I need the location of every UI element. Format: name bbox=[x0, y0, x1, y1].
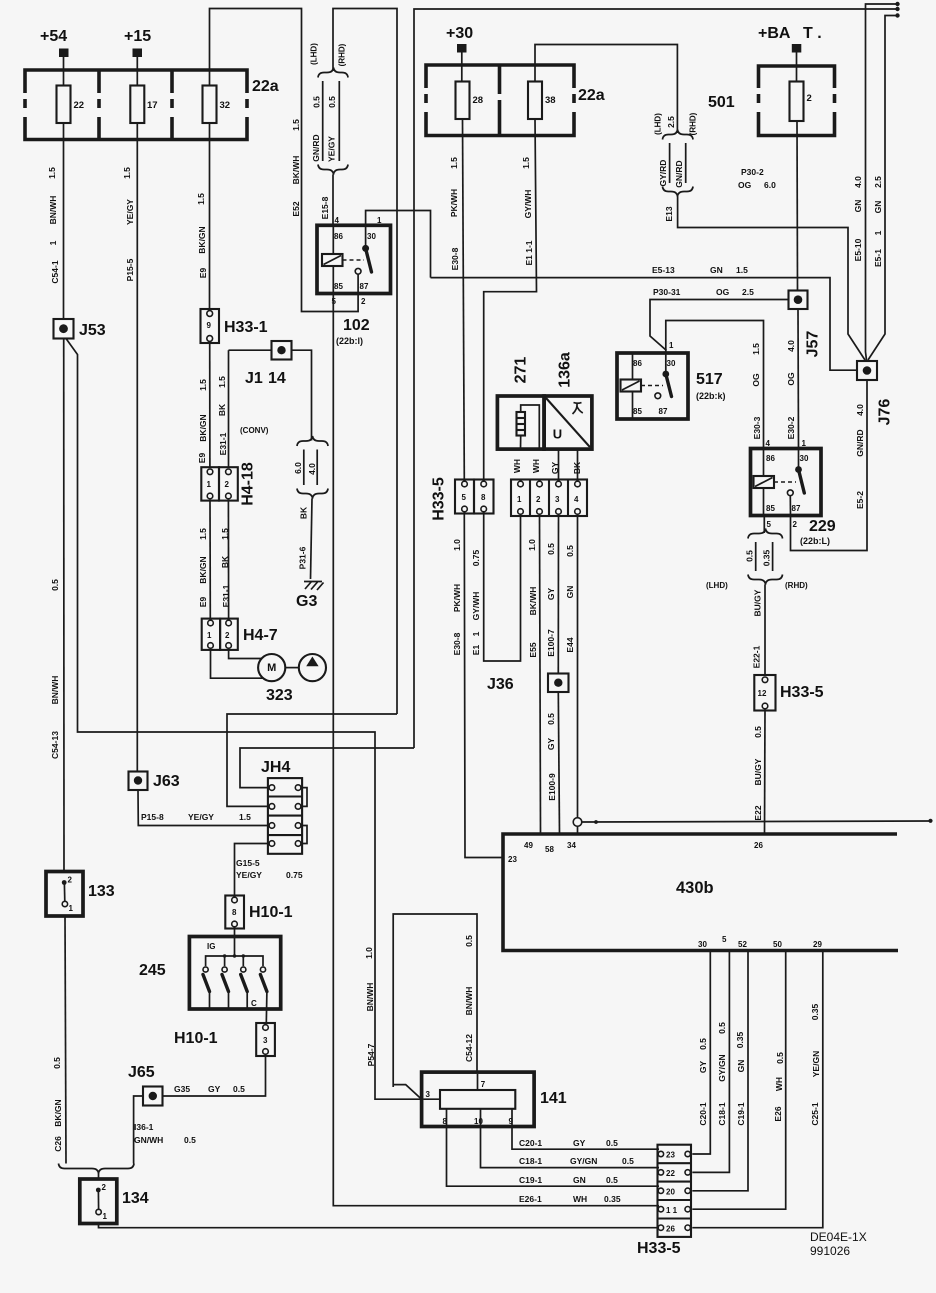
svg-text:517: 517 bbox=[696, 371, 723, 388]
wire H4-18 pin2 to H4-7 pin2 bbox=[227, 501, 229, 619]
fuse 17 bbox=[130, 86, 144, 124]
svg-text:4: 4 bbox=[574, 495, 579, 504]
svg-text:4.0: 4.0 bbox=[786, 340, 796, 352]
svg-text:136a: 136a bbox=[557, 352, 574, 388]
switch arm 2 bbox=[222, 975, 229, 992]
svg-text:7: 7 bbox=[481, 1080, 486, 1089]
svg-text:2: 2 bbox=[536, 495, 541, 504]
svg-text:E5-1: E5-1 bbox=[873, 249, 883, 267]
svg-text:0.5: 0.5 bbox=[745, 550, 755, 562]
svg-text:E1 1-1: E1 1-1 bbox=[524, 240, 534, 265]
svg-text:271: 271 bbox=[513, 357, 530, 384]
svg-text:1: 1 bbox=[802, 439, 807, 448]
wire pin34 node continuation arrow right bbox=[582, 821, 929, 822]
svg-text:E5-2: E5-2 bbox=[855, 491, 865, 509]
ignition switch bus bbox=[206, 956, 263, 966]
svg-text:5: 5 bbox=[722, 935, 727, 944]
svg-text:WH: WH bbox=[512, 459, 522, 473]
svg-text:30: 30 bbox=[698, 940, 707, 949]
wire 133 to merge brace (C26) bbox=[65, 916, 66, 1164]
svg-text:2.5: 2.5 bbox=[666, 116, 676, 128]
svg-text:430b: 430b bbox=[676, 879, 714, 897]
connector H4-18 bbox=[201, 467, 219, 500]
svg-text:229: 229 bbox=[809, 518, 836, 535]
svg-text:E100-9: E100-9 bbox=[547, 773, 557, 801]
svg-text:4.0: 4.0 bbox=[853, 176, 863, 188]
wire J1 left link to E31-1 drop bbox=[229, 349, 272, 351]
svg-text:C54-12: C54-12 bbox=[464, 1034, 474, 1062]
svg-text:0.35: 0.35 bbox=[810, 1003, 820, 1020]
svg-text:2: 2 bbox=[361, 297, 366, 306]
svg-text:E26: E26 bbox=[773, 1106, 783, 1121]
svg-text:22a: 22a bbox=[578, 87, 605, 104]
svg-text:GN/RD: GN/RD bbox=[855, 429, 865, 456]
svg-text:12: 12 bbox=[758, 689, 767, 698]
svg-text:+30: +30 bbox=[446, 25, 473, 42]
wire +BA terminal to fuse 2 bbox=[796, 53, 798, 83]
svg-text:6.0: 6.0 bbox=[293, 462, 303, 474]
svg-text:(22b:k): (22b:k) bbox=[696, 391, 726, 401]
wire H10-1 to ignition switch 245 bbox=[234, 929, 236, 957]
svg-text:3: 3 bbox=[426, 1090, 431, 1099]
svg-text:22: 22 bbox=[666, 1169, 675, 1178]
svg-text:GY: GY bbox=[208, 1084, 221, 1094]
svg-text:GN: GN bbox=[736, 1060, 746, 1073]
svg-text:1.5: 1.5 bbox=[198, 528, 208, 540]
svg-text:0.5: 0.5 bbox=[327, 96, 337, 108]
wire JH4 row1 feed (from top continuation) bbox=[240, 748, 414, 788]
wire +15 terminal to fusebox bbox=[136, 57, 138, 86]
svg-text:(LHD): (LHD) bbox=[310, 43, 319, 65]
svg-text:2: 2 bbox=[807, 93, 812, 104]
motor 323 M bbox=[258, 654, 285, 681]
node circle above 430b pin 34 bbox=[573, 818, 582, 827]
svg-text:26: 26 bbox=[666, 1225, 675, 1234]
svg-text:87: 87 bbox=[659, 407, 668, 416]
wire JH4 jumper rows 1-2 bbox=[301, 788, 307, 807]
svg-text:E22: E22 bbox=[753, 805, 763, 820]
svg-text:0.75: 0.75 bbox=[286, 870, 303, 880]
connector H4-7 bbox=[202, 619, 220, 650]
wire H4-18 pin1 to H4-7 pin1 bbox=[209, 501, 211, 619]
svg-text:0.5: 0.5 bbox=[52, 1057, 62, 1069]
svg-text:85: 85 bbox=[334, 282, 343, 291]
wire H33-5 pin 12 to 430b pin 26 (E22 BU/GY) bbox=[764, 711, 767, 835]
wire 136a pin 4 bbox=[577, 449, 579, 480]
svg-text:YE/GN: YE/GN bbox=[811, 1051, 821, 1077]
svg-text:501: 501 bbox=[708, 94, 735, 111]
svg-text:GY: GY bbox=[546, 588, 556, 601]
svg-text:GN: GN bbox=[853, 200, 863, 213]
svg-text:WH: WH bbox=[774, 1077, 784, 1091]
svg-text:GY/GN: GY/GN bbox=[570, 1156, 597, 1166]
svg-text:WH: WH bbox=[531, 459, 541, 473]
svg-text:WH: WH bbox=[573, 1194, 587, 1204]
svg-text:BK/GN: BK/GN bbox=[197, 226, 207, 253]
svg-text:C20-1: C20-1 bbox=[519, 1138, 542, 1148]
svg-text:E31-1: E31-1 bbox=[218, 432, 228, 455]
switch 134 bbox=[80, 1179, 117, 1224]
junction J63 bbox=[129, 772, 148, 791]
svg-text:BK/WH: BK/WH bbox=[291, 156, 301, 185]
wire motor to pump link bbox=[285, 667, 299, 669]
wire J63 to JH4 row 3 (P15-8) bbox=[138, 790, 269, 826]
fuse 22 bbox=[57, 86, 71, 124]
svg-text:0.5: 0.5 bbox=[233, 1084, 245, 1094]
wire 141 pin 10 to H33-5 pin 22 bbox=[481, 1109, 660, 1168]
wire H4-7 pin2 to motor bbox=[229, 650, 262, 659]
svg-text:1.0: 1.0 bbox=[527, 539, 537, 551]
svg-text:GY/RD: GY/RD bbox=[658, 160, 668, 187]
svg-text:8: 8 bbox=[443, 1117, 448, 1126]
svg-text:23: 23 bbox=[666, 1151, 675, 1160]
wire H33-5 pin8 to strip pin1 (E1 GY/WH) bbox=[484, 514, 521, 662]
svg-text:C19-1: C19-1 bbox=[736, 1102, 746, 1125]
connector H33-5 pin 12 bbox=[754, 675, 775, 711]
wire 134 to H33-5 pin 26 bbox=[99, 1224, 660, 1228]
wire element bottom to pin 1 bbox=[520, 436, 522, 450]
svg-text:BN/WH: BN/WH bbox=[464, 987, 474, 1016]
svg-text:30: 30 bbox=[667, 359, 676, 368]
svg-text:0.5: 0.5 bbox=[698, 1038, 708, 1050]
wire diagonal into 141 pin 3 bbox=[393, 1085, 421, 1100]
fusebox 22a (+30) border bbox=[426, 65, 574, 136]
svg-text:OG: OG bbox=[716, 287, 730, 297]
svg-text:4.0: 4.0 bbox=[855, 404, 865, 416]
wire J53 to 133 (C54-13) bbox=[63, 339, 65, 872]
svg-text:0.5: 0.5 bbox=[565, 545, 575, 557]
svg-text:1.5: 1.5 bbox=[198, 379, 208, 391]
wire 141 pin 8 to H33-5 pin 20 bbox=[447, 1109, 660, 1186]
svg-text:17: 17 bbox=[147, 100, 158, 111]
svg-text:E9: E9 bbox=[197, 453, 207, 464]
svg-text:4.0: 4.0 bbox=[307, 463, 317, 475]
svg-text:T .: T . bbox=[803, 25, 822, 42]
svg-text:1: 1 bbox=[207, 631, 212, 640]
svg-text:BN/WH: BN/WH bbox=[50, 676, 60, 705]
svg-text:2: 2 bbox=[225, 631, 230, 640]
svg-text:GY/GN: GY/GN bbox=[717, 1054, 727, 1081]
svg-text:1.5: 1.5 bbox=[122, 167, 132, 179]
svg-text:3: 3 bbox=[555, 495, 560, 504]
control unit 430b bbox=[503, 834, 898, 951]
junction J57 bbox=[789, 291, 808, 310]
svg-text:J76: J76 bbox=[877, 399, 894, 426]
svg-text:E22-1: E22-1 bbox=[752, 645, 762, 668]
svg-text:IG: IG bbox=[207, 942, 215, 951]
wire relay 102 pin 30 to E5-13 bbox=[366, 211, 431, 278]
svg-text:GN: GN bbox=[710, 265, 723, 275]
svg-text:G35: G35 bbox=[174, 1084, 190, 1094]
svg-text:0.5: 0.5 bbox=[546, 543, 556, 555]
switch 133 bbox=[46, 872, 83, 917]
svg-text:OG: OG bbox=[738, 180, 752, 190]
svg-text:102: 102 bbox=[343, 317, 370, 334]
svg-text:BK: BK bbox=[220, 555, 230, 568]
wire 136a pin 3 bbox=[558, 449, 560, 480]
svg-text:1: 1 bbox=[669, 341, 674, 350]
svg-text:0.5: 0.5 bbox=[606, 1138, 618, 1148]
wire fuse 38 top loop to GY/RD variant bracket bbox=[535, 45, 677, 134]
svg-text:E52: E52 bbox=[291, 201, 301, 216]
wire loop B top (JH4 row2 to relay 102 coil riser) bbox=[333, 9, 397, 715]
wire strip pin3 through J36 to 430b pin 58 (E100-7 GY / E100-9) bbox=[557, 516, 559, 674]
fuse 38 bbox=[528, 82, 542, 120]
svg-text:1: 1 bbox=[471, 631, 481, 636]
svg-text:323: 323 bbox=[266, 687, 293, 704]
svg-text:H10-1: H10-1 bbox=[174, 1030, 218, 1047]
svg-text:9: 9 bbox=[509, 1117, 514, 1126]
svg-text:1.0: 1.0 bbox=[452, 539, 462, 551]
svg-text:J63: J63 bbox=[153, 773, 180, 790]
svg-text:0.75: 0.75 bbox=[471, 549, 481, 566]
svg-text:C18-1: C18-1 bbox=[717, 1102, 727, 1125]
wire 430b pin 50 to H33-5 pin 11 bbox=[692, 951, 785, 1210]
connector strip pins 1-4 bbox=[511, 480, 587, 517]
svg-text:141: 141 bbox=[540, 1090, 567, 1107]
svg-text:34: 34 bbox=[567, 841, 576, 850]
svg-text:58: 58 bbox=[545, 845, 554, 854]
svg-text:E26-1: E26-1 bbox=[519, 1194, 542, 1204]
svg-text:(RHD): (RHD) bbox=[338, 43, 347, 66]
svg-text:1 1: 1 1 bbox=[666, 1206, 678, 1215]
svg-text:87: 87 bbox=[792, 504, 801, 513]
svg-text:E55: E55 bbox=[528, 642, 538, 657]
variant wire GN/RD (LHD) bbox=[322, 81, 324, 161]
junction J53 bbox=[54, 319, 74, 339]
pump symbol 323 bbox=[299, 654, 326, 681]
svg-text:86: 86 bbox=[633, 359, 642, 368]
svg-text:GN/WH: GN/WH bbox=[134, 1135, 163, 1145]
svg-text:52: 52 bbox=[738, 940, 747, 949]
wire strip pin2 to 430b pin 49 (E55 BK/WH) bbox=[540, 516, 541, 834]
wire J57 to relay 229 pin 1 (E30-2 OG) bbox=[797, 309, 800, 449]
wire 430b pin 52 to H33-5 pin 20 bbox=[692, 951, 748, 1191]
wire C54-12 jumper (141 pin3 to pin7) bbox=[393, 914, 477, 1087]
wire H4-7 pin1 to motor bbox=[211, 650, 264, 678]
relay 102 switch bbox=[365, 225, 367, 246]
svg-text:P30-2: P30-2 bbox=[741, 167, 764, 177]
svg-text:GN: GN bbox=[873, 201, 883, 214]
svg-text:C18-1: C18-1 bbox=[519, 1156, 542, 1166]
svg-text:(CONV): (CONV) bbox=[240, 426, 269, 435]
svg-text:3: 3 bbox=[263, 1036, 268, 1045]
svg-text:BK/GN: BK/GN bbox=[53, 1099, 63, 1126]
svg-text:2.5: 2.5 bbox=[742, 287, 754, 297]
svg-text:1: 1 bbox=[103, 1212, 108, 1221]
svg-text:30: 30 bbox=[800, 454, 809, 463]
svg-text:0.5: 0.5 bbox=[606, 1175, 618, 1185]
svg-text:I36-1: I36-1 bbox=[134, 1122, 154, 1132]
wire J76 to relay 229 pin 2 (E5-2 GN/RD) bbox=[791, 380, 868, 551]
relay 102 bbox=[317, 225, 391, 293]
fuse 2 bbox=[790, 82, 804, 122]
svg-text:GN/RD: GN/RD bbox=[311, 134, 321, 161]
svg-text:G15-5: G15-5 bbox=[236, 858, 260, 868]
svg-text:PK/WH: PK/WH bbox=[449, 189, 459, 217]
svg-text:PK/WH: PK/WH bbox=[452, 584, 462, 612]
svg-text:GN/RD: GN/RD bbox=[674, 160, 684, 187]
svg-text:C54-1: C54-1 bbox=[50, 260, 60, 283]
wire P30-31 OG from J57 to relay 517 pin 1 bbox=[650, 300, 789, 351]
wire strip pin4 to 430b pin 34 (E44 GN) bbox=[577, 516, 579, 818]
sender symbol bbox=[573, 403, 583, 415]
svg-text:1: 1 bbox=[517, 495, 522, 504]
svg-text:0.35: 0.35 bbox=[735, 1031, 745, 1048]
svg-text:H33-1: H33-1 bbox=[224, 319, 268, 336]
connector H10-1 pin 8 bbox=[225, 896, 244, 929]
ground G3 bbox=[304, 582, 324, 591]
svg-text:GY: GY bbox=[573, 1138, 586, 1148]
svg-text:C25-1: C25-1 bbox=[810, 1102, 820, 1125]
svg-text:J36: J36 bbox=[487, 676, 514, 693]
svg-text:YE/GY: YE/GY bbox=[188, 812, 214, 822]
svg-text:9: 9 bbox=[207, 321, 212, 330]
svg-text:10: 10 bbox=[474, 1117, 483, 1126]
svg-text:2: 2 bbox=[68, 876, 73, 885]
svg-text:C20-1: C20-1 bbox=[698, 1102, 708, 1125]
svg-text:BN/WH: BN/WH bbox=[365, 983, 375, 1012]
svg-text:H4-18: H4-18 bbox=[240, 462, 257, 506]
wire J53 branch to P54-7 drop bbox=[66, 339, 422, 1100]
svg-text:1: 1 bbox=[873, 230, 883, 235]
fuel pump unit 141 bbox=[422, 1072, 534, 1126]
wire H33-1 to H4-18 pin 1 bbox=[209, 343, 211, 467]
merge brace above 134 bbox=[59, 1164, 135, 1174]
svg-text:8: 8 bbox=[232, 908, 237, 917]
svg-text:H10-1: H10-1 bbox=[249, 904, 293, 921]
relay 102 coil bbox=[332, 225, 334, 254]
svg-text:H33-5: H33-5 bbox=[780, 684, 824, 701]
svg-text:BK/WH: BK/WH bbox=[528, 587, 538, 616]
svg-text:U: U bbox=[553, 427, 562, 442]
wire 430b pin 29 to H33-5 pin 26 bbox=[692, 951, 823, 1228]
svg-text:E30-8: E30-8 bbox=[452, 632, 462, 655]
svg-text:DE04E-1X: DE04E-1X bbox=[810, 1230, 867, 1244]
svg-text:1.5: 1.5 bbox=[239, 812, 251, 822]
variant wire YE/GY (RHD) bbox=[338, 81, 340, 161]
svg-text:GY: GY bbox=[546, 738, 556, 751]
svg-text:P30-31: P30-31 bbox=[653, 287, 681, 297]
svg-text:E5-10: E5-10 bbox=[853, 238, 863, 261]
svg-text:GN: GN bbox=[573, 1175, 586, 1185]
svg-text:M: M bbox=[267, 662, 276, 674]
variant bracket 6.0/4.0 bbox=[297, 436, 328, 446]
svg-text:991026: 991026 bbox=[810, 1244, 850, 1258]
svg-text:C54-13: C54-13 bbox=[50, 731, 60, 759]
svg-text:+54: +54 bbox=[40, 28, 67, 45]
svg-text:E30-2: E30-2 bbox=[786, 416, 796, 439]
connector H33-1 pin 9 bbox=[201, 309, 220, 343]
svg-text:E1: E1 bbox=[471, 645, 481, 656]
svg-text:E15-8: E15-8 bbox=[320, 196, 330, 219]
svg-text:J65: J65 bbox=[128, 1064, 155, 1081]
svg-text:E30-8: E30-8 bbox=[450, 247, 460, 270]
svg-text:32: 32 bbox=[220, 100, 231, 111]
wire E5-13 GN to J76 bbox=[431, 278, 858, 371]
svg-text:BK: BK bbox=[299, 506, 309, 519]
svg-text:1.5: 1.5 bbox=[291, 119, 301, 131]
svg-text:0.5: 0.5 bbox=[717, 1022, 727, 1034]
svg-text:C26: C26 bbox=[53, 1136, 63, 1152]
svg-text:85: 85 bbox=[766, 504, 775, 513]
wire fuse 38 down to E1 jog bbox=[484, 119, 537, 480]
svg-text:26: 26 bbox=[754, 841, 763, 850]
wire 141 pin 9 to H33-5 pin 23 bbox=[512, 1109, 659, 1149]
svg-text:5: 5 bbox=[462, 493, 467, 502]
wire H10-1 pin 3 to J65 (G35 GY) bbox=[163, 1056, 266, 1096]
svg-text:1.5: 1.5 bbox=[47, 167, 57, 179]
svg-text:E9: E9 bbox=[198, 268, 208, 279]
svg-text:YE/GY: YE/GY bbox=[236, 870, 262, 880]
svg-text:J53: J53 bbox=[79, 322, 106, 339]
svg-text:P15-8: P15-8 bbox=[141, 812, 164, 822]
switch arm 4 (C) bbox=[260, 975, 267, 992]
connector H33-5 bottom bbox=[658, 1145, 692, 1237]
svg-text:1.5: 1.5 bbox=[751, 343, 761, 355]
svg-text:1: 1 bbox=[207, 480, 212, 489]
svg-text:86: 86 bbox=[334, 232, 343, 241]
fusebox 22a (left) border bbox=[25, 70, 247, 140]
wire +54 terminal to fusebox bbox=[63, 57, 65, 86]
connector H10-1 pin 3 bbox=[256, 1023, 275, 1056]
svg-text:14: 14 bbox=[268, 370, 286, 387]
svg-text:P15-5: P15-5 bbox=[125, 258, 135, 281]
svg-text:20: 20 bbox=[666, 1188, 675, 1197]
wire relay 517 pin 1 to relay 229 pin 4 (E30-3 OG) bbox=[666, 321, 764, 449]
svg-text:G3: G3 bbox=[296, 593, 317, 610]
fuse 28 bbox=[456, 82, 470, 120]
wire J1 right link to G3 brace bbox=[292, 350, 312, 440]
svg-text:1.5: 1.5 bbox=[736, 265, 748, 275]
svg-text:E13: E13 bbox=[664, 206, 674, 221]
svg-text:1.5: 1.5 bbox=[521, 157, 531, 169]
svg-text:GN: GN bbox=[565, 586, 575, 599]
wire J1 to H4-18 pin 2 bbox=[228, 350, 230, 467]
svg-text:GY: GY bbox=[698, 1061, 708, 1074]
wire H33-5 pin5 to 430b pin 23 (E30-8 PK/WH) bbox=[464, 514, 503, 858]
wire relay 102 pin 85 long drop to H33-5 pin 11 (E26-1 WH) bbox=[333, 266, 659, 1206]
svg-text:0.35: 0.35 bbox=[604, 1194, 621, 1204]
svg-text:GY: GY bbox=[550, 462, 560, 475]
svg-text:4: 4 bbox=[766, 439, 771, 448]
wire relay 229 pin 5 to variant bracket bbox=[763, 516, 765, 534]
switch arm 1 bbox=[203, 975, 210, 992]
svg-text:28: 28 bbox=[473, 95, 484, 106]
svg-text:BK: BK bbox=[572, 461, 582, 474]
svg-text:134: 134 bbox=[122, 1190, 149, 1207]
svg-text:E44: E44 bbox=[565, 637, 575, 652]
svg-text:JH4: JH4 bbox=[261, 759, 290, 776]
svg-text:BK: BK bbox=[217, 403, 227, 416]
svg-text:0.5: 0.5 bbox=[622, 1156, 634, 1166]
svg-text:0.5: 0.5 bbox=[464, 935, 474, 947]
svg-text:1.0: 1.0 bbox=[364, 947, 374, 959]
svg-text:BK/GN: BK/GN bbox=[198, 556, 208, 583]
svg-text:GY/WH: GY/WH bbox=[523, 190, 533, 219]
junction J1 14 bbox=[272, 341, 292, 360]
wire element top jog to pin 2 bbox=[521, 405, 540, 449]
svg-text:E9: E9 bbox=[198, 597, 208, 608]
svg-text:P54-7: P54-7 bbox=[366, 1043, 376, 1066]
svg-text:1.5: 1.5 bbox=[196, 193, 206, 205]
svg-text:H4-7: H4-7 bbox=[243, 627, 278, 644]
svg-text:+BA: +BA bbox=[758, 25, 791, 42]
junction J76 bbox=[857, 361, 877, 380]
svg-text:YE/GY: YE/GY bbox=[125, 199, 135, 225]
svg-text:(RHD): (RHD) bbox=[785, 581, 808, 590]
wire JH4 row2 feed (from loop B riser) bbox=[227, 714, 397, 806]
